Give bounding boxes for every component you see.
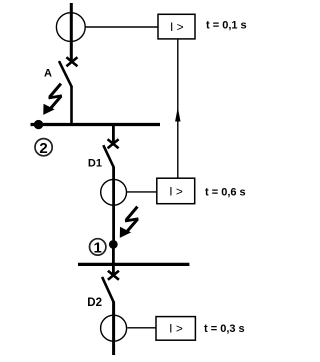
svg-text:A: A (44, 68, 52, 80)
svg-text:t = 0,6 s: t = 0,6 s (205, 187, 246, 199)
svg-text:t = 0,3 s: t = 0,3 s (204, 323, 245, 335)
svg-text:I >: I > (170, 20, 184, 34)
svg-text:I >: I > (169, 184, 183, 198)
svg-text:I >: I > (169, 322, 183, 336)
svg-text:D1: D1 (88, 158, 102, 170)
svg-text:t = 0,1 s: t = 0,1 s (206, 20, 247, 32)
svg-text:1: 1 (94, 239, 102, 256)
svg-text:2: 2 (39, 140, 47, 157)
svg-text:D2: D2 (87, 297, 102, 309)
